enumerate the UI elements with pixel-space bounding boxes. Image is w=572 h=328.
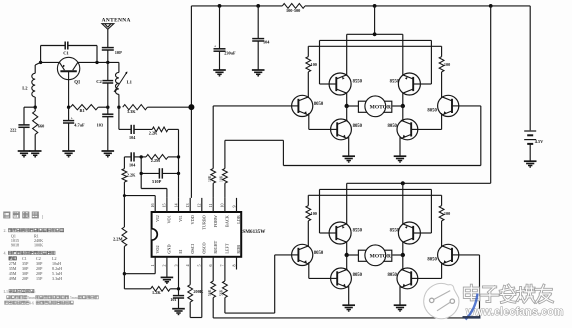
wire top supply bus left xyxy=(191,5,282,7)
svg-text:16: 16 xyxy=(150,204,155,208)
pin 12 TURBO stub xyxy=(201,198,203,212)
wire battery branch to lower bridge xyxy=(490,6,492,183)
wire row2 from L1 node xyxy=(119,107,131,129)
svg-text:GND: GND xyxy=(167,245,172,254)
ground under 230uF xyxy=(213,69,226,71)
node L2-660 xyxy=(34,106,37,109)
capacitor 101 xyxy=(170,289,184,309)
ground under 660 xyxy=(29,150,42,152)
svg-text:8: 8 xyxy=(231,265,236,267)
ground under 4.7uF xyxy=(62,150,75,152)
wire bridge1 right PNP collector to motor xyxy=(402,93,404,106)
capacitor 222 xyxy=(10,125,30,133)
wire bridge1 right PNP base drop xyxy=(421,40,432,84)
inductor L2 xyxy=(22,62,40,107)
wire bridge2 low-left emitter to ground xyxy=(348,286,350,306)
wire bus to battery xyxy=(529,6,531,130)
resistor R1 xyxy=(70,105,98,113)
svg-text:660: 660 xyxy=(38,124,44,129)
svg-text:4: 4 xyxy=(185,265,190,267)
wire bridge2 left PNP emitter drop xyxy=(346,183,348,224)
capacitor 104 row3 xyxy=(129,152,136,167)
svg-text:EI: EI xyxy=(178,249,183,254)
wire C1 left lead xyxy=(41,46,66,63)
transistor 8550 bridge2 left xyxy=(329,222,363,244)
wire bridge1 low-left emitter to ground xyxy=(348,137,350,157)
motor M2 xyxy=(347,245,403,266)
transistor 8050 bridge2 low right xyxy=(388,268,418,289)
svg-text:230uF: 230uF xyxy=(224,50,236,55)
svg-text:Q1: Q1 xyxy=(74,81,81,86)
svg-text:TURBO: TURBO xyxy=(201,215,206,230)
pin 2 GND stub xyxy=(166,257,168,270)
svg-text:8050: 8050 xyxy=(427,108,437,113)
node motor2 right xyxy=(401,253,405,257)
pin 13 VDD stub xyxy=(189,198,191,212)
wire bridge2 base cross rail xyxy=(320,188,432,190)
svg-text:222: 222 xyxy=(10,128,16,133)
resistor 660 xyxy=(33,107,45,151)
wire bridge2 low-right collector xyxy=(402,255,404,270)
node R1-103 xyxy=(106,106,109,109)
svg-text:VI2: VI2 xyxy=(155,215,160,222)
svg-text:9018: 9018 xyxy=(11,243,19,248)
svg-text:L1: L1 xyxy=(4,289,8,294)
motor M1 xyxy=(347,96,403,117)
ground bridge1 left xyxy=(342,155,355,157)
svg-text:100: 100 xyxy=(311,211,317,216)
wire row3 left corner xyxy=(124,156,130,158)
wire VO1 branch xyxy=(141,157,167,198)
capacitor 103 xyxy=(97,107,114,151)
resistor 100 bridge2 right xyxy=(439,195,450,247)
capacitor 510P xyxy=(141,168,178,184)
wire EI column xyxy=(124,274,150,289)
transistor 8050 bridge2 driver left xyxy=(292,244,324,265)
wire bridge2 right driver emitter path xyxy=(417,262,442,278)
svg-text:10P: 10P xyxy=(115,50,122,55)
watermark brand glyphs xyxy=(464,285,479,300)
svg-text:100: 100 xyxy=(444,211,450,216)
wire row3 right xyxy=(168,156,179,158)
note para line 2 xyxy=(5,301,8,304)
svg-text:30P: 30P xyxy=(22,271,29,276)
resistor 100 bridge1 right xyxy=(439,46,450,98)
svg-text:2.2M: 2.2M xyxy=(113,236,123,241)
svg-text:100: 100 xyxy=(444,62,450,67)
svg-text:5.1uH: 5.1uH xyxy=(52,271,62,276)
svg-text:RIGHT: RIGHT xyxy=(213,240,218,253)
svg-text:101: 101 xyxy=(170,297,176,302)
svg-text:SM6135W: SM6135W xyxy=(242,229,266,235)
node bus-bridge1 xyxy=(373,4,377,8)
svg-text:200K: 200K xyxy=(193,289,203,294)
node VI2 branch xyxy=(123,194,126,197)
ground bridge2 right xyxy=(394,304,407,306)
op-amp U1 SM6135W body xyxy=(152,212,242,257)
node VDD main xyxy=(188,104,194,110)
svg-text:9: 9 xyxy=(231,206,236,208)
svg-text:6: 6 xyxy=(208,265,213,267)
svg-text:2.2K: 2.2K xyxy=(149,130,158,135)
antenna symbol xyxy=(102,24,114,30)
pin 7 LEFT stub xyxy=(224,257,226,270)
transistor 8550 bridge2 right xyxy=(390,222,421,244)
svg-text:R1: R1 xyxy=(80,108,85,113)
wire bridge1 right PNP emitter drop xyxy=(402,34,404,75)
note para line 1 xyxy=(7,296,10,299)
svg-text:10: 10 xyxy=(220,204,225,208)
wire VDD riser xyxy=(190,6,192,198)
svg-text:49M: 49M xyxy=(9,276,17,281)
resistor 2.2K row2 xyxy=(149,127,168,135)
svg-text:2: 2 xyxy=(162,265,167,267)
svg-text::: : xyxy=(42,214,44,221)
node EI xyxy=(177,287,180,290)
svg-text:4.7uF: 4.7uF xyxy=(74,123,85,128)
svg-text:ANTENNA: ANTENNA xyxy=(102,18,131,24)
wire bridge2 left driver emitter path xyxy=(309,262,332,278)
svg-text:100-500: 100-500 xyxy=(286,8,300,13)
node rail-C1-left xyxy=(39,61,42,64)
svg-text:10K: 10K xyxy=(208,175,212,182)
wire bridge1 low-right collector xyxy=(402,106,404,121)
wire bridge2 right PNP base drop xyxy=(421,189,432,233)
wire bridge2 rail V+ xyxy=(347,182,491,184)
svg-text:BACK: BACK xyxy=(225,214,230,227)
node rail-antenna xyxy=(106,61,109,64)
node 510P right xyxy=(177,172,180,175)
wire 222 to ground xyxy=(23,127,25,151)
wire FORW pin11 riser xyxy=(213,106,291,198)
node row3-VO1 xyxy=(140,155,143,158)
svg-text:11: 11 xyxy=(208,204,213,208)
pin 4 OSCI stub xyxy=(189,257,191,270)
pin 15 VO1 stub xyxy=(166,198,168,212)
svg-text:8550: 8550 xyxy=(390,228,400,233)
pin 3 EI stub xyxy=(178,257,180,270)
svg-text:MOTOR: MOTOR xyxy=(370,253,392,259)
svg-text:+: + xyxy=(214,44,216,48)
svg-text:510P: 510P xyxy=(152,179,162,184)
svg-text:5: 5 xyxy=(197,265,202,267)
wire bridge2 right PNP collector to motor xyxy=(402,242,404,255)
node bridge1 rail V+ center xyxy=(373,32,377,36)
wire row3 mid xyxy=(134,156,146,158)
pin 10 BACK stub xyxy=(224,198,226,212)
transistor 8050 bridge2 driver right xyxy=(427,244,458,265)
node 510P left xyxy=(140,172,143,175)
node bridge2 rail-emitter right xyxy=(401,181,405,185)
wire RIGHT pin6 run xyxy=(213,255,479,318)
node motor1 right xyxy=(401,104,405,108)
wire bridge1 rail V+ xyxy=(347,33,403,35)
wire bridge2 low-right emitter to ground xyxy=(399,286,401,306)
battery 4.5V xyxy=(524,131,544,161)
svg-text:56K: 56K xyxy=(220,289,224,296)
svg-text:4-6: 4-6 xyxy=(29,301,34,305)
node bus-230uF xyxy=(218,4,222,8)
transistor Q1 xyxy=(57,57,81,107)
resistor 56K on RIGHT xyxy=(208,281,216,298)
note table B header xyxy=(9,257,13,261)
svg-text:8050: 8050 xyxy=(427,257,437,262)
svg-text:MOTOR: MOTOR xyxy=(370,104,392,110)
wire bridge1 collector rail xyxy=(308,45,441,47)
node VO2 branch xyxy=(123,272,126,275)
svg-text:8050: 8050 xyxy=(388,273,398,278)
svg-text:C2: C2 xyxy=(96,79,102,84)
capacitor C2 xyxy=(96,62,113,107)
wire bridge1 low-right emitter to ground xyxy=(399,137,401,157)
resistor 3.3K xyxy=(123,105,148,114)
wire R1 to node xyxy=(98,106,108,108)
ground bridge1 right xyxy=(394,155,407,157)
wire bridge2 low-left collector xyxy=(346,255,348,270)
wire antenna stem xyxy=(107,29,109,47)
resistor 56K on LEFT xyxy=(220,281,228,298)
resistor 10K on BACK xyxy=(220,169,228,184)
node rail-C1-right xyxy=(95,61,98,64)
svg-text:VO1: VO1 xyxy=(167,215,172,223)
svg-text:12: 12 xyxy=(197,204,202,208)
svg-text::: : xyxy=(35,289,36,294)
transistor 8050 bridge2 low left xyxy=(331,268,363,289)
svg-text:100: 100 xyxy=(311,62,317,67)
pin 11 FORW stub xyxy=(212,198,214,212)
resistor 10K on FORW xyxy=(208,169,216,184)
pin 16 VI2 stub xyxy=(154,198,156,212)
svg-text:2.2K: 2.2K xyxy=(127,173,136,178)
ground under battery xyxy=(524,160,537,162)
wire bridge1 left PNP collector to motor xyxy=(346,93,348,106)
resistor 1.2K xyxy=(151,286,171,295)
wire EI pin3 xyxy=(178,270,180,289)
wire bridge1 left PNP base drop xyxy=(320,40,330,84)
svg-text:C1: C1 xyxy=(63,51,69,56)
pin 14 VI1 stub xyxy=(178,198,180,212)
wire bridge1 right driver emitter path xyxy=(417,113,442,129)
svg-text:L1: L1 xyxy=(127,79,133,84)
capacitor 104 row2 xyxy=(129,125,136,140)
wire bridge2 right PNP emitter drop xyxy=(402,183,404,224)
wire C1 right lead xyxy=(68,46,97,63)
ground under top 104 xyxy=(252,69,265,71)
svg-text:3.3uH: 3.3uH xyxy=(52,276,62,281)
capacitor 4.7uF xyxy=(63,107,85,151)
svg-text:13: 13 xyxy=(185,204,190,208)
svg-text:2.2M: 2.2M xyxy=(151,158,160,163)
svg-text:LDB: LDB xyxy=(236,215,241,224)
svg-text:14: 14 xyxy=(173,204,178,208)
resistor 100-500 xyxy=(282,4,305,13)
svg-text:VO2: VO2 xyxy=(155,245,160,253)
svg-text:104: 104 xyxy=(129,162,136,167)
resistor 2.2K vertical xyxy=(122,169,136,183)
note heading xyxy=(4,212,11,219)
transistor 8050 bridge1 low right xyxy=(388,119,418,140)
IC notch xyxy=(152,229,158,240)
svg-text:5mm: 5mm xyxy=(28,296,36,300)
ground pin2 GND xyxy=(161,270,174,284)
svg-text:8050: 8050 xyxy=(314,102,324,107)
node Q1 base xyxy=(67,106,70,109)
capacitor 10P xyxy=(102,48,122,55)
transistor 8550 bridge1 right xyxy=(390,73,421,95)
capacitor 104 top xyxy=(252,6,270,70)
svg-text:45M: 45M xyxy=(9,271,17,276)
wire row2 to pin14 column xyxy=(168,129,179,198)
svg-text:LEFT: LEFT xyxy=(225,243,230,253)
svg-text:VDD: VDD xyxy=(190,215,195,224)
svg-text:100K: 100K xyxy=(34,243,43,248)
transistor 8550 bridge1 left xyxy=(329,73,363,95)
resistor 2.2M vertical xyxy=(113,196,127,274)
wire to 222 cap xyxy=(24,107,35,125)
resistor 200K OSC loop xyxy=(188,270,204,318)
svg-text:15P: 15P xyxy=(36,276,43,281)
svg-text:FORW: FORW xyxy=(213,214,218,227)
svg-text:OSCO: OSCO xyxy=(201,242,206,253)
svg-text:15: 15 xyxy=(162,204,167,208)
ground under 103 xyxy=(102,150,115,152)
svg-text:8050: 8050 xyxy=(388,124,398,129)
svg-text:56K: 56K xyxy=(208,289,212,296)
wire bridge2 left PNP collector to motor xyxy=(346,242,348,255)
resistor 100 bridge1 left xyxy=(306,46,317,98)
svg-text:2.: 2. xyxy=(4,228,7,233)
inductor L1 variable xyxy=(114,62,133,107)
wire top supply bus right xyxy=(305,5,530,7)
wire bridge1 low-left collector xyxy=(346,106,348,121)
svg-text:103: 103 xyxy=(97,123,103,128)
node bus-104 xyxy=(256,4,260,8)
ground under 222 xyxy=(18,150,31,152)
svg-text:8550: 8550 xyxy=(353,228,363,233)
svg-text:8050: 8050 xyxy=(314,251,324,256)
svg-text:8050: 8050 xyxy=(353,124,363,129)
svg-text:104: 104 xyxy=(263,39,270,44)
wire LEFT pin7 run xyxy=(225,255,292,313)
wire row2 mid xyxy=(134,128,152,130)
wire VO2 pin1 run xyxy=(124,270,155,274)
svg-text:RDB: RDB xyxy=(236,245,241,254)
wire oscillator top rail xyxy=(41,61,119,63)
watermark blue stroke xyxy=(466,294,478,320)
pin 8 RDB stub xyxy=(236,257,238,270)
transistor 8050 bridge1 low left xyxy=(331,119,363,140)
pin 6 RIGHT stub xyxy=(212,257,214,270)
node motor2 left xyxy=(345,253,349,257)
svg-text:4.: 4. xyxy=(4,251,7,256)
svg-text:8550: 8550 xyxy=(390,79,400,84)
svg-text:0.5mm: 0.5mm xyxy=(67,296,78,300)
node row3-pin14 xyxy=(177,155,180,158)
node bus-battery-branch xyxy=(489,4,493,8)
node L1 bottom xyxy=(117,106,120,109)
watermark logo blob xyxy=(424,284,459,319)
svg-text:3: 3 xyxy=(173,265,178,267)
wire bridge1 V+ riser xyxy=(374,6,376,34)
pin 5 OSCO stub xyxy=(201,257,203,270)
capacitor 230uF xyxy=(214,6,237,70)
svg-text:104: 104 xyxy=(129,135,136,140)
wire BACK pin10 riser xyxy=(225,106,481,198)
wire bridge1 left PNP emitter drop xyxy=(346,34,348,75)
wire bridge2 collector rail xyxy=(308,194,441,196)
wire bridge1 left driver emitter path xyxy=(309,113,332,129)
wire 10P to rail xyxy=(107,50,109,62)
svg-text:OSCI: OSCI xyxy=(190,243,195,253)
svg-text:8550: 8550 xyxy=(353,79,363,84)
svg-text:1: 1 xyxy=(150,265,155,267)
ground under 101 xyxy=(172,308,185,310)
wire bridge1 base cross rail xyxy=(320,39,432,41)
svg-text:8050: 8050 xyxy=(353,273,363,278)
svg-text:20P: 20P xyxy=(22,276,29,281)
resistor 2.2M row3 xyxy=(146,155,168,163)
svg-text:3.3K: 3.3K xyxy=(127,109,136,114)
wire 3.3K to VDD node xyxy=(147,106,191,108)
svg-text:20P: 20P xyxy=(36,271,43,276)
pin 1 VO2 stub xyxy=(154,257,156,270)
svg-text:4.5V: 4.5V xyxy=(535,139,544,144)
transistor 8050 bridge1 driver right xyxy=(427,95,458,116)
wire 1.2K to EI node xyxy=(170,288,178,290)
svg-text:VI1: VI1 xyxy=(178,215,183,222)
svg-text:1.2K: 1.2K xyxy=(152,290,161,295)
pin 9 LDB stub xyxy=(236,198,238,212)
ground bridge2 left xyxy=(342,304,355,306)
svg-text:7: 7 xyxy=(220,265,225,267)
capacitor C1 xyxy=(63,42,69,56)
svg-text:10K: 10K xyxy=(220,175,224,182)
svg-text:L2: L2 xyxy=(22,86,28,91)
wire VI2 column with 2.2K xyxy=(124,157,155,198)
resistor 100 bridge2 left xyxy=(306,195,317,247)
node motor1 left xyxy=(345,104,349,108)
transistor 8050 bridge1 driver left xyxy=(292,95,324,116)
wire bridge2 left PNP base drop xyxy=(320,189,330,233)
